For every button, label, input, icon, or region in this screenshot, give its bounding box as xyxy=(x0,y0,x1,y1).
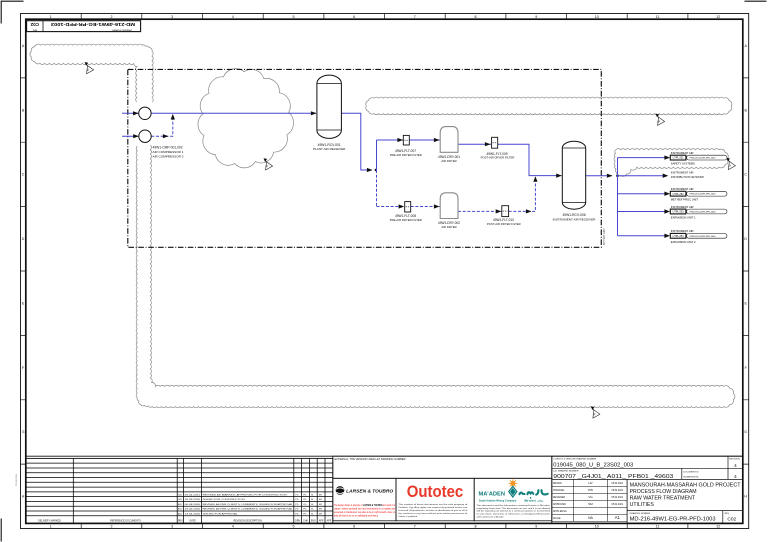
wire: distribution riser xyxy=(617,158,619,236)
vessel V1 49W1-RCV-001 xyxy=(317,75,342,138)
svg-text:C02: C02 xyxy=(727,516,736,522)
svg-text:05.04.2021: 05.04.2021 xyxy=(612,490,624,492)
filter FLT-008 xyxy=(405,202,411,212)
svg-text:PLANT AIR RECEIVER: PLANT AIR RECEIVER xyxy=(313,147,346,151)
svg-text:H: H xyxy=(744,495,747,499)
svg-text:DRAWING NUMBER: DRAWING NUMBER xyxy=(112,28,132,31)
svg-text:AIR DRYER: AIR DRYER xyxy=(441,225,456,229)
svg-text:05.04.2021: 05.04.2021 xyxy=(612,497,624,499)
svg-text:019045_080_U_B_23S02_003: 019045_080_U_B_23S02_003 xyxy=(553,463,633,469)
revision cloud: top-left capsule + left vertical + bottom band (snake) xyxy=(36,44,153,102)
svg-text:UTPL-254: UTPL-254 xyxy=(673,235,685,238)
svg-text:SR: SR xyxy=(319,513,322,515)
svg-text:PRE-AIR DRYER FILTER: PRE-AIR DRYER FILTER xyxy=(390,218,422,222)
wire: receiver outlet to dryer-train junction xyxy=(341,113,372,170)
svg-text:AIR COMPRESSOR 2: AIR COMPRESSOR 2 xyxy=(153,154,184,158)
svg-text:CHK: CHK xyxy=(303,520,308,523)
title strip top line xyxy=(26,455,743,457)
label V1 xyxy=(313,143,346,151)
logo cell Maaden xyxy=(474,478,552,521)
svg-text:APPROVED: APPROVED xyxy=(553,503,566,506)
svg-text:MD-216-49W1-EG-PR-PFD-1003: MD-216-49W1-EG-PR-PFD-1003 xyxy=(630,517,716,523)
title block right section xyxy=(552,456,743,523)
svg-text:PWD-216-03-PR-PFD-1004: PWD-216-03-PR-PFD-1004 xyxy=(690,212,717,214)
project title xyxy=(630,482,742,508)
svg-text:SR: SR xyxy=(319,504,322,506)
zone letters left/right xyxy=(22,44,748,499)
wire: outlet 2 xyxy=(618,175,664,177)
svg-text:LARSEN & TOUBRO: LARSEN & TOUBRO xyxy=(346,488,393,494)
svg-text:EXPANSION UNIT 1: EXPANSION UNIT 1 xyxy=(671,216,696,220)
svg-text:PD: PD xyxy=(295,494,298,496)
wire: DRY-001 to FLT-009 xyxy=(458,143,491,145)
svg-text:BATTERY LIMIT: BATTERY LIMIT xyxy=(603,228,606,245)
revision flag F5 xyxy=(591,406,600,418)
svg-text:INSTRUMENT AIR: INSTRUMENT AIR xyxy=(671,151,694,155)
off-page connector OUT4 xyxy=(664,209,670,213)
svg-text:G: G xyxy=(744,430,747,434)
svg-text:The design shown is property o: The design shown is property of LARSEN &… xyxy=(334,504,396,507)
wire: FLT-009 to receiver 2 xyxy=(498,144,562,175)
svg-text:12: 12 xyxy=(716,525,720,529)
svg-text:nature, where general use and: nature, where general use and exclusivel… xyxy=(334,507,396,510)
label V2 xyxy=(553,213,597,221)
title block note cell xyxy=(333,456,552,478)
svg-text:APP: APP xyxy=(327,520,332,523)
reversed drawing number box top-left xyxy=(27,21,141,32)
svg-text:DOCUMENT ID: DOCUMENT ID xyxy=(683,472,699,474)
wire: outlet 1 xyxy=(618,157,666,159)
revision flag F1 xyxy=(85,62,94,74)
svg-text:G: G xyxy=(22,430,25,434)
svg-text:11: 11 xyxy=(656,15,660,19)
svg-text:06.08.2020: 06.08.2020 xyxy=(185,504,202,506)
wire: outlet 3 xyxy=(618,193,666,195)
svg-text:ISSUED FOR CONSTRUCTION: ISSUED FOR CONSTRUCTION xyxy=(203,499,246,501)
svg-text:PWD-216-05-PR-PFD-1005: PWD-216-05-PR-PFD-1005 xyxy=(690,158,717,160)
svg-text:PD: PD xyxy=(295,499,298,501)
svg-text:SR: SR xyxy=(319,494,322,496)
svg-text:MD-216-49W1-EG-PR-PFD-1003: MD-216-49W1-EG-PR-PFD-1003 xyxy=(51,22,135,27)
dryer DRY-002 xyxy=(440,193,458,219)
svg-text:HV: HV xyxy=(588,481,592,485)
revision flag F3 xyxy=(656,114,665,126)
revision cloud: big blob over feed line xyxy=(198,69,294,168)
svg-text:reserved. Reproduction, transf: reserved. Reproduction, transfer or dist… xyxy=(398,509,468,512)
svg-text:MANSOURAH-MASSARAH GOLD PROJEC: MANSOURAH-MASSARAH GOLD PROJECT xyxy=(630,482,742,488)
svg-text:accepted or transferred, can a: accepted or transferred, can also is be … xyxy=(334,511,395,514)
revision flag F4 xyxy=(726,158,735,170)
svg-text:REFERENCE DOCUMENTS: REFERENCE DOCUMENTS xyxy=(110,520,141,523)
svg-text:REVISED AS PER CLIENT’S COMMEN: REVISED AS PER CLIENT’S COMMENTS, ISSUED… xyxy=(203,508,294,511)
svg-text:CHECKED: CHECKED xyxy=(553,490,565,492)
svg-text:POST-AIR DRYER FILTER: POST-AIR DRYER FILTER xyxy=(481,156,515,160)
svg-text:PG: PG xyxy=(303,499,306,501)
off-page arrow OUT2 xyxy=(663,174,669,178)
svg-text:9: 9 xyxy=(535,525,537,529)
svg-text:REVISED AS MARKED, APPROVED FO: REVISED AS MARKED, APPROVED FOR CONSTRUC… xyxy=(203,493,288,496)
svg-text:6: 6 xyxy=(353,525,355,529)
svg-text:NA: NA xyxy=(588,516,593,520)
svg-text:4: 4 xyxy=(734,474,737,479)
svg-text:Outotec is prohibited.: Outotec is prohibited. xyxy=(398,515,418,518)
svg-text:will be reproduced, altered to: will be reproduced, altered to a retriev… xyxy=(477,510,551,513)
svg-text:PWD-216-03-PR-PFD-1004: PWD-216-03-PR-PFD-1004 xyxy=(690,236,717,238)
svg-text:(Ma’aden) معادن: (Ma’aden) معادن xyxy=(524,498,544,502)
wire: DRY-002 to FLT-010 (dashed) xyxy=(458,210,502,212)
wire: standby compressor dashed tie-in xyxy=(151,117,173,137)
svg-text:INSTRUMENT AIR: INSTRUMENT AIR xyxy=(671,171,694,175)
off-page connector OUT5 xyxy=(664,234,670,238)
off-page connector OUT1 xyxy=(664,155,670,159)
svg-text:SCALE: SCALE xyxy=(553,517,561,520)
zone division ticks xyxy=(81,14,688,529)
svg-text:PD: PD xyxy=(295,513,298,515)
logo cell Larsen & Toubro xyxy=(333,478,396,521)
svg-text:MET REF PROC UNIT: MET REF PROC UNIT xyxy=(671,198,699,202)
svg-text:proprietary know-how. This doc: proprietary know-how. This document can … xyxy=(477,507,551,510)
svg-text:DRAWN: DRAWN xyxy=(553,482,562,485)
svg-text:The content of these documents: The content of these documents are the s… xyxy=(398,503,468,506)
svg-text:INSTRUMENT AIR: INSTRUMENT AIR xyxy=(671,187,694,191)
svg-text:VG: VG xyxy=(588,495,593,499)
svg-text:REV: REV xyxy=(725,513,730,515)
svg-text:POST-AIR DRYER FILTER: POST-AIR DRYER FILTER xyxy=(487,222,521,226)
svg-text:PD: PD xyxy=(295,504,298,506)
wire: outlet 5 xyxy=(618,235,666,237)
svg-text:AIR DRYER: AIR DRYER xyxy=(441,159,456,163)
svg-text:4: 4 xyxy=(232,525,234,529)
svg-text:12: 12 xyxy=(716,15,720,19)
svg-text:PW: PW xyxy=(588,488,593,492)
svg-text:MA’ADEN: MA’ADEN xyxy=(479,491,506,497)
svg-text:DRN: DRN xyxy=(295,520,300,523)
svg-text:49W1-CMP-001,002: 49W1-CMP-001,002 xyxy=(153,146,183,150)
svg-text:8: 8 xyxy=(475,525,477,529)
battery limit dash-dot boundary xyxy=(128,69,602,247)
svg-text:C: C xyxy=(744,173,747,177)
wire: bottom standby branch to FLT-008 (dashed) xyxy=(377,206,405,208)
svg-text:REVISION: REVISION xyxy=(729,459,740,461)
svg-text:1: 1 xyxy=(50,525,52,529)
filter FLT-009 xyxy=(492,137,498,148)
logo cell Outotec xyxy=(396,478,474,521)
svg-text:UTPL-251: UTPL-251 xyxy=(673,157,685,160)
svg-text:Outotec: Outotec xyxy=(407,483,464,501)
svg-text:PWD-216-03-PR-PFD-1004: PWD-216-03-PR-PFD-1004 xyxy=(690,194,717,196)
svg-text:APP: APP xyxy=(319,520,324,523)
label FLT-007 xyxy=(390,149,422,157)
svg-text:ENG: ENG xyxy=(311,520,316,523)
vessel V2 49W1-RCV-006 xyxy=(562,141,585,209)
svg-text:RAW WATER TREATMENT: RAW WATER TREATMENT xyxy=(630,496,696,502)
svg-text:18.09.2020: 18.09.2020 xyxy=(185,499,202,501)
svg-text:7: 7 xyxy=(414,15,416,19)
svg-text:UTPL-253: UTPL-253 xyxy=(673,211,685,214)
revision table header xyxy=(38,520,332,523)
svg-text:DESIGNED: DESIGNED xyxy=(553,497,565,499)
svg-text:EXPANSION UNIT 2: EXPANSION UNIT 2 xyxy=(671,240,696,244)
svg-text:Saudi Arabian Mining Company: Saudi Arabian Mining Company xyxy=(479,499,517,502)
svg-text:10: 10 xyxy=(595,525,599,529)
svg-text:D: D xyxy=(22,237,25,241)
svg-text:to any share, electronic or ot: to any share, electronic or otherwise, o… xyxy=(477,513,551,516)
trim mark bottom-left xyxy=(0,519,2,542)
wire: junction riser (solid up / dashed down) xyxy=(376,140,378,170)
svg-text:UTILITIES: UTILITIES xyxy=(630,502,655,508)
arrow into plant air receiver xyxy=(311,111,317,115)
svg-text:11: 11 xyxy=(656,525,660,529)
wire: feed to compressor 2 xyxy=(122,135,139,137)
svg-text:8: 8 xyxy=(475,15,477,19)
svg-text:INSTRUMENT AIR: INSTRUMENT AIR xyxy=(671,205,694,209)
drawing number xyxy=(630,512,737,523)
svg-text:INSTRUMENT AIR: INSTRUMENT AIR xyxy=(671,229,694,233)
svg-text:PFD-1003.DWG: PFD-1003.DWG xyxy=(16,474,18,486)
svg-text:L&T DRAWING NUMBER: L&T DRAWING NUMBER xyxy=(553,470,579,473)
svg-text:7: 7 xyxy=(414,525,416,529)
revision table xyxy=(26,458,333,523)
trim mark top-right xyxy=(745,0,767,2)
revision flag F2 xyxy=(264,158,273,170)
Maaden disclaimer xyxy=(477,504,551,519)
revision cloud: horizontal capsule mid-right xyxy=(366,97,732,115)
svg-text:ISSUED FOR APPROVAL: ISSUED FOR APPROVAL xyxy=(203,512,239,515)
svg-text:PG: PG xyxy=(303,504,306,506)
wire: FLT-010 riser to main (dashed) xyxy=(509,178,536,211)
svg-text:19.06.2020: 19.06.2020 xyxy=(185,509,202,511)
label FLT-009 xyxy=(481,152,515,160)
svg-text:9: 9 xyxy=(535,15,537,19)
svg-text:SR: SR xyxy=(319,509,322,511)
svg-text:4: 4 xyxy=(734,463,737,468)
label compressors xyxy=(153,146,184,159)
label DRY-002 xyxy=(438,221,460,229)
svg-text:SAFETY SYSTEMS: SAFETY SYSTEMS xyxy=(671,162,695,166)
svg-text:DRAWING NUMBER: DRAWING NUMBER xyxy=(630,512,651,515)
svg-text:REVISED AS PER CLIENT’S COMMEN: REVISED AS PER CLIENT’S COMMENTS, ISSUED… xyxy=(203,503,294,506)
label DRY-001 xyxy=(438,155,460,163)
node: distribution junction xyxy=(616,174,619,177)
revision cloud: around instrument-air output 1 xyxy=(614,149,728,177)
Outotec disclaimer xyxy=(398,503,468,518)
svg-text:(SUBMISSION): (SUBMISSION) xyxy=(683,477,698,479)
label FLT-008 xyxy=(390,214,422,222)
svg-text:the contents in any form witho: the contents in any form without prior w… xyxy=(398,512,468,515)
svg-text:D: D xyxy=(744,237,747,241)
svg-text:5: 5 xyxy=(293,525,295,529)
svg-text:EXTERNAL: THE VENDOR USED L&T: EXTERNAL: THE VENDOR USED L&T DRAWING NU… xyxy=(335,458,406,461)
svg-text:that all that is an or or vali: that all that is an or or validated and … xyxy=(334,514,379,517)
svg-text:6: 6 xyxy=(353,15,355,19)
wire: outlet 4 xyxy=(618,211,666,213)
svg-text:2: 2 xyxy=(111,15,113,19)
wire: top branch to FLT-007 xyxy=(377,139,404,141)
wire: FLT-007 to DRY-001 xyxy=(409,139,440,141)
signatures sub table xyxy=(553,481,624,520)
svg-text:C02: C02 xyxy=(30,22,39,27)
svg-text:05.04.2021: 05.04.2021 xyxy=(185,494,202,496)
svg-text:PRE-AIR DRYER FILTER: PRE-AIR DRYER FILTER xyxy=(390,153,422,157)
filter FLT-010 xyxy=(502,206,509,217)
compressor C2 49W1-CMP-002 xyxy=(139,130,151,142)
svg-text:PG: PG xyxy=(303,509,306,511)
svg-text:PD: PD xyxy=(295,509,298,511)
svg-text:DATE: DATE xyxy=(189,520,196,523)
title block texts xyxy=(553,458,740,481)
svg-text:10: 10 xyxy=(595,15,599,19)
svg-text:C: C xyxy=(22,173,25,177)
svg-text:REVISION DESCRIPTION: REVISION DESCRIPTION xyxy=(233,520,262,523)
svg-text:49W1-RCV-006: 49W1-RCV-006 xyxy=(562,213,585,217)
svg-text:APPD.ENGG: APPD.ENGG xyxy=(553,510,567,513)
svg-text:13.04.2020: 13.04.2020 xyxy=(185,513,202,515)
svg-text:SR: SR xyxy=(319,499,322,501)
dryer DRY-001 xyxy=(440,127,458,153)
svg-text:Outotec Oyj. Any rights not ex: Outotec Oyj. Any rights not expressly gr… xyxy=(398,506,468,509)
svg-text:05.04.2021: 05.04.2021 xyxy=(612,504,624,506)
svg-text:REV: REV xyxy=(178,520,183,523)
off-page connector OUT3 xyxy=(664,192,670,196)
svg-text:DISTRIBUTION NETWORK: DISTRIBUTION NETWORK xyxy=(671,175,705,179)
label FLT-010 xyxy=(487,218,521,226)
svg-text:3: 3 xyxy=(171,15,173,19)
trim mark top-left xyxy=(1,1,23,23)
Maaden logo xyxy=(508,478,519,489)
svg-text:900707 _G4J01_ A011_ PFB01 _49: 900707 _G4J01_ A011_ PFB01 _49603 xyxy=(553,474,673,480)
svg-text:A1: A1 xyxy=(615,515,621,520)
svg-text:1: 1 xyxy=(50,15,52,19)
svg-text:PG: PG xyxy=(303,494,306,496)
wire: FLT-008 to DRY-002 (dashed) xyxy=(411,206,440,208)
L&T red disclaimer xyxy=(334,504,396,518)
svg-text:49W1-RCV-001: 49W1-RCV-001 xyxy=(318,143,341,147)
svg-text:H: H xyxy=(22,495,25,499)
svg-text:INSTRUMENT AIR RECEIVER: INSTRUMENT AIR RECEIVER xyxy=(553,217,597,221)
svg-text:3: 3 xyxy=(171,525,173,529)
svg-text:2: 2 xyxy=(111,525,113,529)
svg-text:CLIENT’S & VENDOR DRAWING NUMB: CLIENT’S & VENDOR DRAWING NUMBER xyxy=(553,458,596,461)
svg-text:DELIVERY MARKED: DELIVERY MARKED xyxy=(38,520,61,523)
svg-text:PG: PG xyxy=(303,513,306,515)
filter FLT-007 xyxy=(403,135,409,145)
wire: receiver 2 outlet to distribution junction xyxy=(586,175,612,177)
svg-text:This document and the informat: This document and the information contai… xyxy=(477,504,551,507)
svg-text:5: 5 xyxy=(293,15,295,19)
svg-text:PROCESS FLOW DIAGRAM: PROCESS FLOW DIAGRAM xyxy=(630,489,697,495)
node: dryer train junction xyxy=(375,169,377,171)
svg-text:05.04.2021: 05.04.2021 xyxy=(612,483,624,485)
svg-text:written permission of Ma’aden.: written permission of Ma’aden. xyxy=(477,516,505,519)
svg-text:UTPL-252: UTPL-252 xyxy=(673,193,685,196)
revision rows xyxy=(178,493,322,515)
svg-text:SM: SM xyxy=(588,502,593,506)
compressor C1 49W1-CMP-001 xyxy=(139,107,151,119)
wire: feed to compressor 1 xyxy=(122,112,316,114)
svg-text:4: 4 xyxy=(232,15,234,19)
svg-text:REV: REV xyxy=(32,28,37,30)
